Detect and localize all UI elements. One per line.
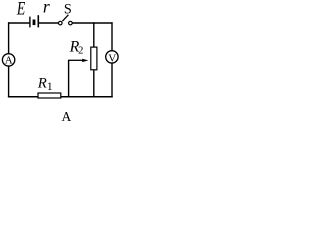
switch S contact circle left [59, 21, 63, 25]
svg-text:S: S [64, 2, 72, 18]
switch S lever [62, 15, 68, 21]
battery E plate long 2 [37, 15, 39, 27]
wire R2 branch upper [93, 22, 95, 47]
svg-text:A: A [62, 109, 72, 124]
wire right vertical upper (to voltmeter) [111, 22, 113, 51]
wire battery to switch [39, 22, 59, 24]
battery E plate short thick [33, 20, 36, 26]
svg-text:r: r [43, 0, 50, 16]
switch S contact circle right [69, 21, 73, 25]
wire bottom-left [8, 96, 38, 98]
ammeter A [2, 54, 14, 66]
wire top-left (battery positive lead) [8, 22, 30, 24]
wire right vertical lower [111, 63, 113, 98]
wire R2 branch lower [93, 70, 95, 98]
wire bottom-right [61, 96, 113, 98]
svg-text:A: A [5, 55, 13, 67]
wiper wire down to bottom [68, 60, 70, 98]
wire left vertical lower [8, 66, 10, 98]
rheostat wiper arrow [69, 59, 84, 61]
svg-text:2: 2 [78, 46, 83, 57]
voltmeter V [106, 51, 118, 63]
resistor R1 body [38, 93, 61, 98]
rheostat R2 body [91, 47, 97, 70]
battery E plate long 1 [29, 17, 31, 28]
wire left vertical upper [8, 22, 10, 54]
svg-text:R: R [37, 76, 47, 92]
wire switch to top-right corner [72, 22, 112, 24]
svg-text:1: 1 [47, 81, 53, 93]
svg-text:E: E [16, 0, 25, 20]
svg-text:V: V [108, 53, 116, 65]
